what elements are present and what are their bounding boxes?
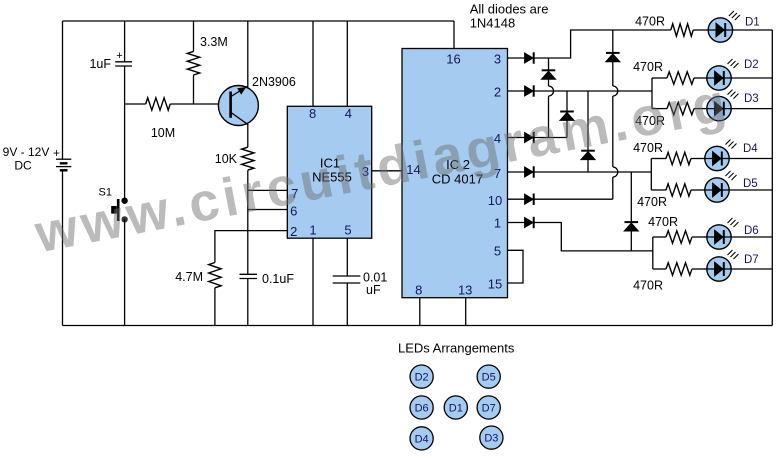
svg-text:D4: D4 — [743, 143, 758, 155]
resistor R1 470R — [671, 24, 693, 36]
diode V4 1N4148 — [606, 53, 621, 62]
svg-text:uF: uF — [366, 283, 381, 297]
wire IC2 pin10 stub — [508, 198, 525, 200]
label 3.3M — [200, 35, 228, 49]
svg-text:D7: D7 — [482, 403, 496, 415]
svg-text:D1: D1 — [449, 403, 463, 415]
wire 10M to base — [170, 103, 229, 105]
wire IC2 pin8 down — [419, 298, 421, 326]
svg-text:1: 1 — [494, 216, 501, 231]
label IC1 NE555 — [312, 156, 352, 185]
wire IC1 pin3 to IC2 pin14 — [372, 170, 402, 172]
resistor R2 470R — [667, 72, 694, 84]
node D4 arrangement — [410, 427, 433, 450]
svg-text:5: 5 — [344, 223, 351, 238]
wire 0.01uF to bottom — [346, 283, 348, 326]
svg-text:D2: D2 — [744, 59, 759, 71]
wire V4 hop over row2 — [613, 86, 618, 96]
svg-text:1: 1 — [309, 223, 316, 238]
wire IC2 pin5-pin15 loop — [508, 250, 524, 283]
wire IC2 pin2 stub — [508, 90, 525, 92]
wire D2D3 fork — [651, 78, 653, 109]
wire emitter to top rail — [247, 21, 249, 87]
wire 1uF branch upper — [124, 21, 126, 61]
battery B1 9V-12V — [56, 159, 71, 170]
wire 1uF-junction to 10M — [125, 103, 146, 105]
wire fork to R5 — [651, 189, 666, 191]
diode V2 1N4148 — [560, 112, 575, 121]
resistor R4 470R — [666, 152, 691, 164]
label R7 470R — [633, 279, 663, 293]
wire IC2 pin3 stub — [508, 57, 525, 59]
LED D1 — [708, 11, 740, 42]
wire 4.7M to bottom — [214, 288, 216, 326]
label R4 470R — [633, 141, 663, 155]
wire S1 to bottom — [124, 219, 126, 325]
wire row2 to fork — [534, 90, 652, 92]
svg-text:470R: 470R — [633, 60, 663, 74]
svg-text:LEDs Arrangements: LEDs Arrangements — [398, 341, 515, 356]
resistor 3.3M — [187, 51, 199, 75]
wire left rail lower — [62, 171, 64, 326]
wire fork to R6 — [653, 236, 666, 238]
wire IC1 pin6 — [248, 209, 287, 211]
wire 10K down to pin6 node — [247, 170, 249, 274]
wire row3 to corner — [534, 30, 671, 58]
wire row1 to D6D7 fork — [534, 223, 653, 251]
label 0.01uF — [363, 271, 387, 298]
wire D3 to rail — [731, 108, 772, 110]
wire V4 lower — [612, 177, 614, 199]
wire IC2 pin7 stub — [508, 171, 525, 173]
wire D6D7 fork — [652, 237, 654, 269]
wire V4 seg2 — [612, 62, 614, 86]
wire IC1 pin5 down upper — [346, 238, 348, 276]
op-amp U1 IC1 NE555 body — [287, 106, 371, 238]
wire V4 hop over row7 — [613, 167, 618, 177]
svg-text:470R: 470R — [637, 195, 667, 209]
wire R1 to D1 — [693, 29, 708, 31]
wire IC1 pin2 — [215, 231, 287, 263]
svg-text:D7: D7 — [744, 254, 759, 266]
wire fork to R4 — [651, 158, 666, 160]
label D1 — [745, 17, 760, 29]
op-amp U2 IC2 CD4017 body — [402, 49, 508, 298]
wire R6 to D6 — [692, 236, 707, 238]
wire R3 to D3 — [694, 108, 707, 110]
label D6 — [744, 225, 759, 237]
wire V5 lower — [630, 231, 632, 251]
label D7 — [744, 254, 759, 266]
wire left rail upper — [62, 21, 64, 159]
svg-text:+: + — [116, 50, 122, 62]
svg-text:+: + — [53, 146, 60, 160]
diode V3 1N4148 — [581, 151, 596, 160]
wire top rail — [63, 20, 455, 22]
wire row7 to fork — [534, 171, 652, 173]
wire D4D5 fork — [650, 159, 652, 191]
diode V5 1N4148 — [624, 222, 639, 231]
wire V2 lower — [566, 121, 568, 138]
wire V3 lower — [587, 160, 589, 172]
svg-text:D6: D6 — [415, 403, 429, 415]
wire V5 upper — [630, 172, 632, 222]
label R5 470R — [637, 195, 667, 209]
svg-text:www.circuitdiagram.org: www.circuitdiagram.org — [29, 72, 734, 265]
svg-text:2: 2 — [494, 85, 501, 100]
svg-text:2: 2 — [290, 224, 297, 239]
capacitor C1 plus — [116, 50, 122, 62]
wire V1 mid — [548, 79, 550, 86]
svg-text:8: 8 — [309, 106, 316, 121]
wire row4 to V2 — [534, 137, 567, 139]
diode row1 1N4148 — [525, 217, 534, 228]
transistor Q1 2N3906 — [218, 86, 258, 126]
diode row10 1N4148 — [525, 194, 534, 205]
diode row2 1N4148 — [525, 85, 534, 96]
label R2 470R — [633, 60, 663, 74]
wire 1uF to junction — [124, 66, 126, 104]
svg-text:2N3906: 2N3906 — [252, 75, 296, 89]
node D1 arrangement — [444, 396, 467, 419]
svg-text:470R: 470R — [648, 215, 678, 229]
label 9V - 12V DC — [3, 145, 50, 173]
wire IC1 pin1 down — [312, 238, 314, 325]
wire R7 to D7 — [692, 268, 707, 270]
wire fork to R7 — [653, 268, 666, 270]
wire IC2 pin16 to top — [453, 21, 455, 49]
capacitor C2 0.1uF — [240, 274, 258, 278]
svg-text:D6: D6 — [744, 225, 759, 237]
watermark www.circuitdiagram.org — [29, 72, 734, 265]
svg-text:9V - 12V: 9V - 12V — [3, 145, 50, 159]
wire right rail — [771, 30, 773, 326]
LED D5 — [705, 171, 737, 202]
wire 0.1uF to bottom — [247, 279, 249, 326]
battery plus sign — [53, 146, 60, 160]
wire 3.3M bottom stub — [193, 75, 195, 104]
wire R2 to D2 — [694, 77, 707, 79]
LED D6 — [707, 218, 739, 249]
label D5 — [743, 178, 758, 190]
wire D6 to rail — [731, 236, 772, 238]
svg-text:10K: 10K — [215, 152, 238, 166]
LED D7 — [707, 250, 739, 281]
node D3 arrangement — [480, 426, 503, 449]
label 2N3906 — [252, 75, 296, 89]
svg-text:13: 13 — [458, 283, 472, 298]
LED D3 — [707, 90, 739, 121]
wire D5 to rail — [729, 189, 772, 191]
svg-text:All diodes are: All diodes are — [470, 2, 549, 17]
svg-text:D1: D1 — [745, 17, 760, 29]
svg-text:16: 16 — [446, 52, 460, 67]
wire IC2 pin4 stub — [508, 137, 525, 139]
switch S1 pushbutton — [111, 198, 128, 223]
wire collector to 10K — [247, 125, 249, 148]
wire IC2 pin1 stub — [508, 222, 525, 224]
svg-text:3.3M: 3.3M — [200, 35, 228, 49]
wire IC2 pin13 down — [465, 298, 467, 326]
svg-text:D5: D5 — [482, 372, 496, 384]
svg-text:1uF: 1uF — [89, 57, 111, 71]
svg-text:DC: DC — [14, 159, 32, 173]
svg-text:3: 3 — [494, 52, 501, 67]
wire junction to S1 — [124, 104, 126, 199]
resistor 10K — [242, 147, 254, 170]
svg-text:1N4148: 1N4148 — [470, 16, 516, 31]
label D3 — [744, 93, 759, 105]
wire IC1 pin4 to top — [346, 21, 348, 106]
wire R4 to D4 — [691, 158, 705, 160]
label R6 470R — [648, 215, 678, 229]
LED D2 — [707, 59, 739, 90]
wire V4 seg3 — [612, 96, 614, 167]
label LEDs Arrangements — [398, 341, 515, 356]
diode row3 1N4148 — [525, 52, 534, 63]
svg-text:D3: D3 — [744, 93, 759, 105]
resistor 4.7M — [209, 263, 221, 288]
label 0.1uF — [262, 272, 294, 286]
wire IC1 pin7 — [248, 189, 287, 191]
resistor R3 470R — [667, 102, 694, 114]
svg-text:5: 5 — [494, 244, 501, 259]
wire D2 to rail — [731, 77, 772, 79]
svg-text:D4: D4 — [415, 433, 429, 445]
svg-text:15: 15 — [488, 277, 502, 292]
svg-text:0.1uF: 0.1uF — [262, 272, 294, 286]
node D6 arrangement — [410, 396, 433, 419]
label 10K — [215, 152, 238, 166]
svg-text:10M: 10M — [151, 126, 175, 140]
svg-text:470R: 470R — [635, 15, 665, 29]
svg-text:D3: D3 — [484, 433, 498, 445]
diode row4 1N4148 — [525, 132, 534, 143]
wire D7 to rail — [731, 268, 772, 270]
IC2 pin numbers — [406, 52, 502, 298]
node D7 arrangement — [477, 396, 500, 419]
wire R5 to D5 — [691, 189, 705, 191]
svg-text:470R: 470R — [633, 279, 663, 293]
label All diodes are 1N4148 — [470, 2, 549, 31]
label D4 — [743, 143, 758, 155]
resistor R7 470R — [666, 263, 692, 275]
svg-text:10: 10 — [488, 193, 502, 208]
wire D1 to rail — [733, 29, 773, 31]
svg-text:8: 8 — [415, 283, 422, 298]
wire V3 upper — [587, 91, 589, 151]
wire fork to R2 — [652, 77, 667, 79]
wire V1 upper — [548, 58, 550, 70]
label R3 470R — [635, 114, 665, 128]
capacitor C3 0.01uF — [333, 276, 361, 283]
svg-text:D5: D5 — [743, 178, 758, 190]
wire IC1 pin8 to top — [312, 21, 314, 106]
wire row10 to V4 — [534, 198, 613, 200]
svg-text:D2: D2 — [415, 372, 429, 384]
resistor R6 470R — [666, 231, 692, 243]
wire V4 upper — [612, 30, 614, 53]
resistor 10M — [146, 98, 171, 110]
label 10M — [151, 126, 175, 140]
label 1uF — [89, 57, 111, 71]
wire 3.3M top stub — [193, 21, 195, 51]
diode V1 1N4148 — [541, 70, 556, 79]
label S1 — [99, 187, 112, 199]
wire D4 to rail — [729, 158, 772, 160]
IC1 pin numbers 8 4 7 6 2 1 5 3 — [290, 106, 369, 239]
wire fork to R3 — [652, 108, 667, 110]
wire V1 hop over row2 — [549, 86, 554, 96]
LED D4 — [705, 140, 737, 171]
label D2 — [744, 59, 759, 71]
wire bottom rail — [63, 325, 773, 327]
node D2 arrangement — [410, 365, 433, 388]
capacitor C1 1uF — [115, 62, 132, 66]
diode row7 1N4148 — [525, 166, 534, 177]
wire V2 upper — [566, 91, 568, 112]
label IC2 CD4017 — [432, 157, 483, 187]
svg-text:4: 4 — [345, 106, 352, 121]
label R1 470R — [635, 15, 665, 29]
svg-text:4.7M: 4.7M — [175, 270, 203, 284]
node D5 arrangement — [477, 365, 500, 388]
wire V1 lower — [548, 96, 550, 138]
label 4.7M — [175, 270, 203, 284]
resistor R5 470R — [666, 184, 691, 196]
